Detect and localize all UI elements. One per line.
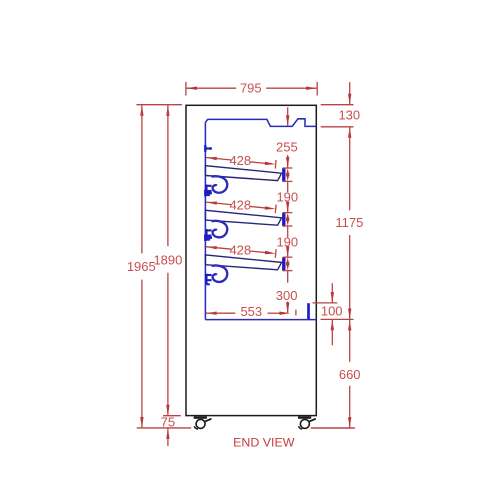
shelf 2 wall tabs (205, 229, 212, 240)
dim 100 upper extension (313, 302, 338, 304)
svg-text:1965: 1965 (127, 259, 156, 274)
dim 1965 line (140, 105, 143, 428)
dim 100 lower arrow (331, 320, 334, 346)
shelf 2 front bar (282, 214, 285, 225)
shelf 2 tip ticks (283, 213, 293, 226)
svg-text:255: 255 (276, 140, 298, 155)
dim 553 line (206, 310, 296, 316)
deck rear step (307, 303, 310, 319)
shelf 2 bracket hook (212, 221, 228, 238)
shelf 1 tip ticks (283, 168, 293, 181)
shelf 1 top clip (205, 145, 212, 152)
dim 795 extension ticks (186, 82, 317, 96)
svg-text:795: 795 (240, 81, 262, 96)
svg-text:553: 553 (240, 304, 262, 319)
cabinet outline (186, 105, 316, 415)
shelf 1 tip arrows (286, 168, 290, 181)
dim 190 lower segments (286, 226, 289, 257)
svg-text:END VIEW: END VIEW (233, 435, 295, 449)
shelf 2 tip arrows (286, 213, 290, 226)
interior left wall (204, 122, 206, 319)
right caster (298, 418, 315, 429)
shelf 2 top clip (205, 190, 212, 197)
right extension lines (321, 105, 354, 127)
svg-text:130: 130 (338, 108, 360, 123)
dim 660 line (348, 320, 351, 428)
canopy profile (205, 119, 316, 127)
shelf 3 bracket hook (212, 265, 228, 282)
shelf 3 blade (205, 255, 281, 270)
dim 300 segments (286, 271, 289, 313)
floor line left (137, 427, 192, 429)
svg-text:428: 428 (229, 242, 251, 257)
svg-text:75: 75 (161, 414, 175, 429)
shelf 2 blade (205, 210, 281, 225)
svg-text:300: 300 (276, 288, 298, 303)
svg-text:1175: 1175 (335, 215, 363, 230)
dim 100 lower extension (321, 318, 354, 320)
dim 428 shelf 1 (206, 157, 276, 169)
dim 428 shelf 3 (206, 246, 276, 258)
left caster (194, 418, 211, 429)
deck line (205, 319, 316, 321)
dim 255 bottom segment (286, 155, 289, 168)
shelf 1 bracket hook (212, 176, 228, 193)
floor line right (311, 427, 355, 429)
shelf 3 top clip (205, 234, 212, 241)
shelf 3 wall tabs (205, 274, 212, 285)
shelf 3 tip arrows (286, 257, 290, 270)
shelf 1 front bar (282, 169, 285, 180)
dim 255 top arrow (286, 107, 289, 126)
svg-text:428: 428 (229, 198, 251, 213)
svg-text:1890: 1890 (153, 253, 182, 268)
cabinet-bottom tick (163, 415, 181, 417)
dim 428 shelf 2 (206, 202, 276, 214)
shelf 3 tip ticks (283, 257, 293, 270)
dim 1175 line (348, 127, 351, 319)
shelf 1 wall tabs (205, 185, 212, 196)
dim 75 bottom arrow (166, 428, 169, 446)
svg-text:660: 660 (339, 367, 361, 382)
svg-text:100: 100 (321, 303, 343, 318)
top-left extension line (136, 104, 182, 106)
dim 130 arrows (348, 82, 351, 105)
dim 190 upper segments (286, 182, 289, 213)
dim 100 upper arrow (331, 283, 334, 303)
dim 795 line (186, 87, 317, 90)
dim 1890 line (166, 105, 169, 416)
svg-text:428: 428 (229, 153, 251, 168)
shelf 3 front bar (282, 258, 285, 269)
shelf 1 blade (205, 166, 281, 181)
